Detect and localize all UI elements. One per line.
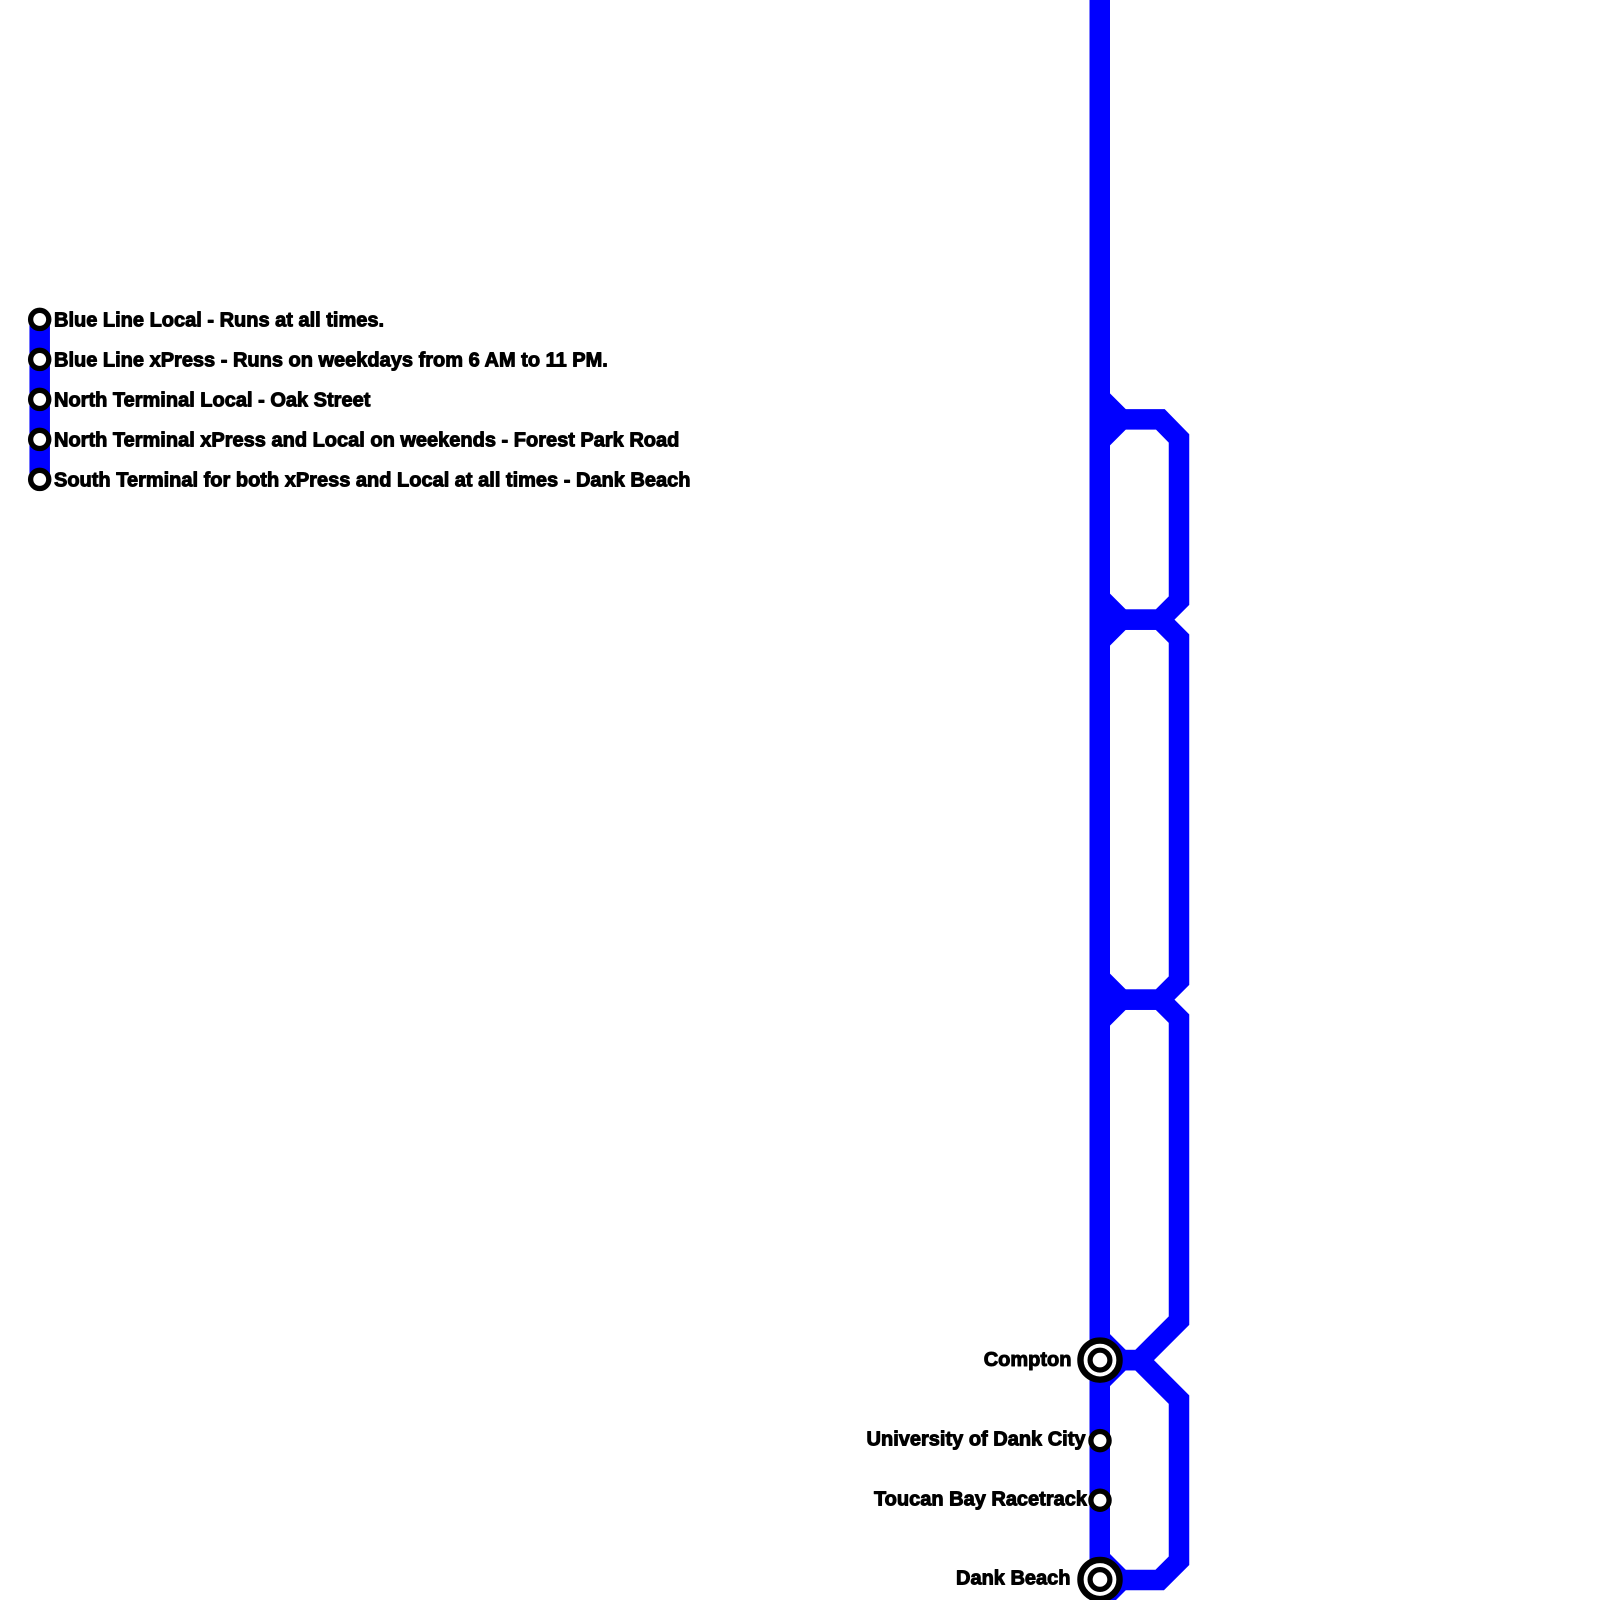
station University of Dank City (small ring)	[1091, 1432, 1109, 1450]
node: junction wedge at merge/diverge 3	[1090, 953, 1137, 1046]
svg-text:Blue Line xPress - Runs on wee: Blue Line xPress - Runs on weekdays from…	[54, 349, 608, 371]
station Toucan Bay Racetrack (small ring)	[1091, 1491, 1109, 1509]
legend ring 1	[31, 310, 49, 328]
svg-text:Toucan Bay Racetrack: Toucan Bay Racetrack	[874, 1488, 1088, 1510]
svg-text:Blue Line Local - Runs at all: Blue Line Local - Runs at all times.	[54, 309, 384, 331]
station Compton (interchange double ring)	[1080, 1341, 1119, 1380]
legend ring 5	[31, 470, 49, 488]
wire: xPress bypass loop 4 (Compton to Dank Beach)	[1100, 1360, 1180, 1580]
node: junction wedge at merge/diverge 2	[1090, 573, 1137, 666]
node: junction wedge at first divergence	[1090, 373, 1137, 466]
node: junction wedge at Compton	[1090, 1314, 1137, 1407]
wire: xPress bypass loop 1 (Oak Street area to first merge)	[1100, 419, 1180, 619]
legend ring 3	[31, 390, 49, 408]
svg-text:Dank Beach: Dank Beach	[956, 1567, 1071, 1589]
svg-text:North Terminal xPress and Loca: North Terminal xPress and Local on weeke…	[54, 429, 679, 451]
wire: xPress bypass loop 2	[1100, 620, 1180, 1000]
wire: Blue Line local trunk (vertical main line)	[1090, 0, 1111, 1580]
wire: xPress bypass loop 3 (down to Compton)	[1100, 1000, 1180, 1361]
legend ring 4	[31, 430, 49, 448]
node: junction wedge at Dank Beach	[1090, 1534, 1137, 1600]
svg-text:University of Dank City: University of Dank City	[867, 1429, 1087, 1451]
svg-text:Compton: Compton	[984, 1349, 1072, 1371]
svg-text:North Terminal Local - Oak Str: North Terminal Local - Oak Street	[54, 389, 371, 411]
station Dank Beach (terminal double ring)	[1080, 1560, 1119, 1599]
wire: legend sample line strip	[29, 319, 50, 479]
svg-text:South Terminal for both xPress: South Terminal for both xPress and Local…	[54, 469, 690, 491]
legend ring 2	[31, 350, 49, 368]
